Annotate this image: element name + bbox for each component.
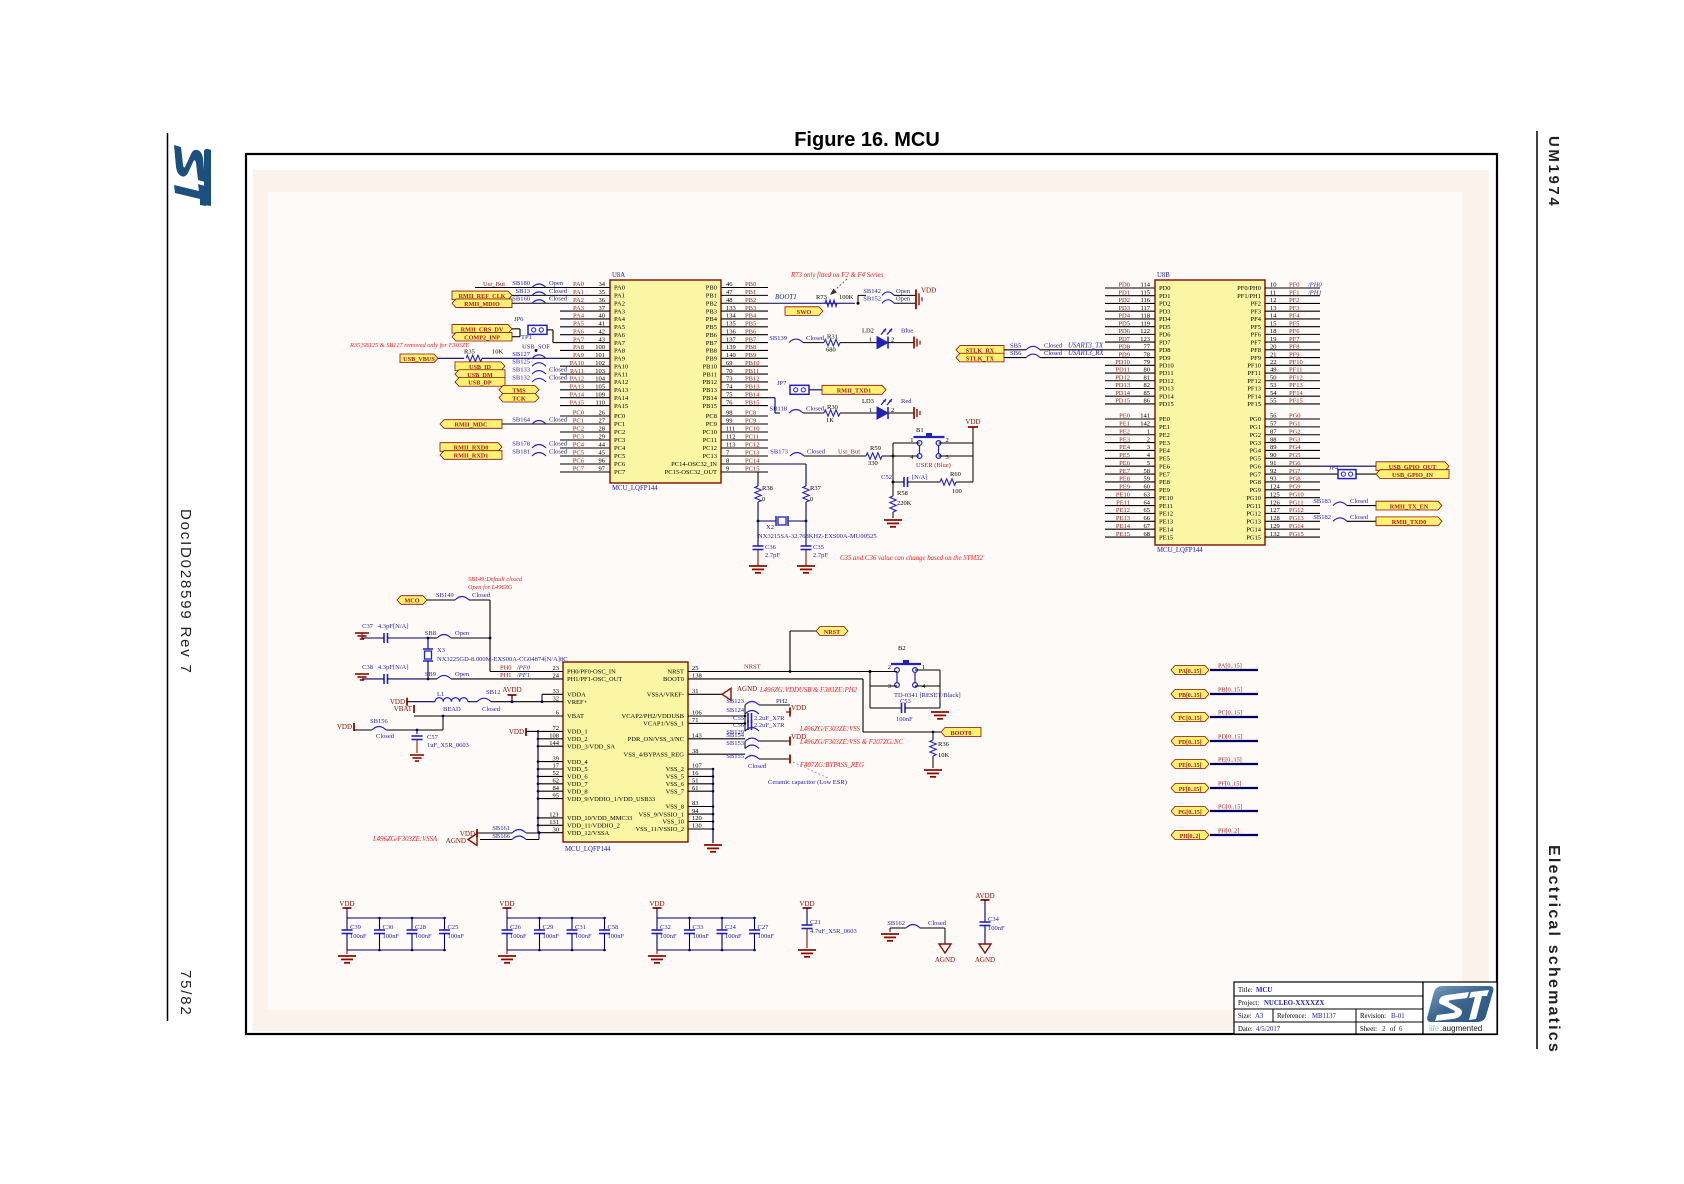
svg-text:C36: C36	[765, 544, 777, 551]
svg-text:Closed: Closed	[549, 288, 568, 295]
svg-text:Closed: Closed	[549, 296, 568, 303]
svg-text:JP6: JP6	[514, 316, 524, 323]
svg-text:/PH0: /PH0	[1307, 282, 1322, 289]
svg-text:VDD_9/VDDIO_1/VDD_USB33: VDD_9/VDDIO_1/VDD_USB33	[567, 796, 655, 803]
svg-text:VDD_5: VDD_5	[567, 766, 588, 773]
svg-text:[N/A]: [N/A]	[912, 474, 928, 481]
svg-text:PD5: PD5	[1159, 324, 1171, 331]
svg-text:100nF: 100nF	[350, 933, 367, 940]
svg-text:VDD: VDD	[337, 723, 352, 731]
svg-text:R60: R60	[950, 471, 961, 478]
svg-text:SB9: SB9	[425, 671, 436, 678]
svg-text:C21: C21	[810, 919, 821, 926]
svg-text:PC13: PC13	[703, 453, 717, 460]
svg-text:USART3_TX: USART3_TX	[1068, 342, 1104, 349]
svg-text:PE12: PE12	[1159, 511, 1173, 518]
svg-text:PD7: PD7	[1159, 339, 1171, 346]
svg-text:PD9: PD9	[1159, 355, 1171, 362]
svg-text:Open: Open	[455, 630, 470, 637]
svg-text:PB11: PB11	[703, 371, 717, 378]
svg-text:PG2: PG2	[1249, 432, 1261, 439]
svg-text:PC[0..15]: PC[0..15]	[1218, 710, 1242, 717]
svg-text:100nF: 100nF	[448, 933, 465, 940]
svg-text:C37: C37	[362, 623, 374, 630]
svg-text:100nF: 100nF	[608, 933, 625, 940]
svg-text:PC4: PC4	[614, 445, 626, 452]
svg-text:PA4: PA4	[614, 316, 626, 323]
svg-text:PF10: PF10	[1247, 363, 1261, 370]
svg-text:Closed: Closed	[482, 706, 501, 713]
svg-text:Ceramic capacitor (Low ESR): Ceramic capacitor (Low ESR)	[768, 779, 847, 786]
svg-text:PC5: PC5	[614, 453, 625, 460]
svg-text:B1: B1	[916, 427, 924, 434]
svg-text:SB133: SB133	[512, 367, 530, 374]
svg-text:U8A: U8A	[612, 272, 625, 279]
svg-text:PA7: PA7	[614, 340, 626, 347]
svg-text:PD12: PD12	[1159, 378, 1174, 385]
svg-text:/PF0: /PF0	[516, 665, 531, 672]
svg-text:RMII_MDIO: RMII_MDIO	[464, 301, 500, 308]
svg-text:SB132: SB132	[512, 374, 530, 381]
svg-text:C58: C58	[608, 924, 619, 931]
svg-text:PH1: PH1	[500, 672, 512, 679]
svg-text:Electrical schematics: Electrical schematics	[1545, 845, 1562, 1054]
svg-text:PH0: PH0	[500, 665, 512, 672]
svg-text:VDDA: VDDA	[567, 692, 586, 699]
svg-text:SB162: SB162	[887, 920, 905, 927]
svg-text:USART3_RX: USART3_RX	[1068, 350, 1104, 357]
svg-text:PG9: PG9	[1249, 487, 1261, 494]
svg-text:Closed: Closed	[1350, 498, 1369, 505]
svg-text:SB12: SB12	[486, 689, 500, 696]
svg-text:100nF: 100nF	[415, 933, 432, 940]
svg-text:PF2: PF2	[1251, 301, 1261, 308]
svg-text:PB0: PB0	[706, 285, 717, 292]
svg-text:SB182: SB182	[1313, 514, 1331, 521]
svg-text:SB5: SB5	[1010, 342, 1021, 349]
svg-text:VSS_5: VSS_5	[666, 774, 684, 781]
svg-text:PA[0..15]: PA[0..15]	[1179, 669, 1202, 675]
svg-text:/PF1: /PF1	[516, 672, 530, 679]
svg-text:B-01: B-01	[1391, 1013, 1405, 1020]
svg-text:PB3: PB3	[706, 308, 717, 315]
svg-text:VCAP2/PH2/VDDUSB: VCAP2/PH2/VDDUSB	[622, 713, 685, 720]
svg-text:PD[0..15]: PD[0..15]	[1178, 740, 1201, 746]
svg-text:PB12: PB12	[703, 379, 717, 386]
svg-text:BOOT1: BOOT1	[775, 293, 797, 301]
svg-text:PF6: PF6	[1251, 332, 1262, 339]
svg-text:Usr_But: Usr_But	[483, 281, 505, 288]
svg-text:USB_GPIO_IN: USB_GPIO_IN	[1392, 472, 1433, 479]
svg-text:100nF: 100nF	[758, 933, 775, 940]
svg-text:SB149: SB149	[436, 592, 454, 599]
svg-text:SB152: SB152	[863, 296, 881, 303]
svg-text:USER (Blue): USER (Blue)	[916, 462, 951, 469]
svg-text:NRST: NRST	[744, 664, 761, 671]
svg-text:C24: C24	[725, 924, 737, 931]
svg-text:6: 6	[1399, 1026, 1403, 1033]
svg-text:VREF+: VREF+	[567, 699, 588, 706]
svg-text:C35 and C36 value can change b: C35 and C36 value can change based on th…	[840, 555, 984, 562]
svg-text:USB_VBUS: USB_VBUS	[403, 356, 435, 363]
svg-text:PG[0..15]: PG[0..15]	[1218, 804, 1242, 811]
svg-text:Figure 16. MCU: Figure 16. MCU	[794, 129, 940, 151]
svg-text:SB127: SB127	[512, 351, 530, 358]
svg-text:VSS_4/BYPASS_REG: VSS_4/BYPASS_REG	[624, 751, 685, 758]
svg-text:SB154: SB154	[726, 732, 744, 739]
svg-text:PG3: PG3	[1249, 440, 1261, 447]
svg-text:PC11: PC11	[703, 437, 717, 444]
svg-text:NX3225GD-8.000M-EXS00A-CG04874: NX3225GD-8.000M-EXS00A-CG04874[N/A]8C	[437, 656, 568, 663]
svg-text:R37: R37	[810, 485, 822, 492]
svg-text:.augmented: .augmented	[1440, 1024, 1482, 1033]
svg-text:PG5: PG5	[1249, 456, 1261, 463]
svg-text:COMP2_INP: COMP2_INP	[464, 334, 500, 341]
svg-text:VBAT: VBAT	[394, 705, 413, 713]
svg-text:PB6: PB6	[706, 332, 718, 339]
svg-text:Closed: Closed	[806, 406, 825, 413]
svg-text:VDD: VDD	[921, 286, 936, 294]
svg-text:PF4: PF4	[1251, 316, 1262, 323]
svg-text:2.7pF: 2.7pF	[765, 552, 780, 559]
svg-text:SB160: SB160	[512, 296, 530, 303]
svg-text:R36: R36	[938, 741, 950, 748]
svg-text:Closed: Closed	[928, 920, 947, 927]
svg-text:PG15: PG15	[1246, 534, 1261, 541]
svg-text:Reference:: Reference:	[1277, 1013, 1307, 1020]
svg-text:MCU_LQFP144: MCU_LQFP144	[1157, 547, 1203, 554]
svg-text:AGND: AGND	[446, 837, 466, 845]
svg-text:PA15: PA15	[614, 403, 628, 410]
svg-text:UM1974: UM1974	[1545, 136, 1562, 208]
svg-text:PC[0..15]: PC[0..15]	[1178, 716, 1201, 722]
svg-text:Closed: Closed	[806, 335, 825, 342]
svg-text:4.3pF[N/A]: 4.3pF[N/A]	[378, 623, 409, 630]
svg-text:SB156: SB156	[370, 718, 388, 725]
svg-text:Closed: Closed	[1044, 350, 1063, 357]
svg-text:PC1: PC1	[614, 421, 625, 428]
svg-text:PA10: PA10	[614, 363, 628, 370]
svg-text:Open: Open	[549, 280, 564, 287]
svg-text:PH1/PF1-OSC_OUT: PH1/PF1-OSC_OUT	[567, 676, 622, 683]
svg-text:PB[0..15]: PB[0..15]	[1179, 693, 1202, 699]
svg-text:PH0/PF0-OSC_IN: PH0/PF0-OSC_IN	[567, 669, 616, 676]
svg-text:MCU_LQFP144: MCU_LQFP144	[565, 846, 611, 853]
svg-text:L496ZG/F303ZE:VSS & F207ZG:NC: L496ZG/F303ZE:VSS & F207ZG:NC	[799, 739, 904, 746]
svg-text:PH[0..2]: PH[0..2]	[1218, 828, 1239, 835]
svg-text:VDD_8: VDD_8	[567, 788, 588, 795]
svg-text:3: 3	[946, 454, 949, 461]
svg-text:Closed: Closed	[549, 367, 568, 374]
svg-text:PF[0..15]: PF[0..15]	[1179, 787, 1202, 793]
svg-text:PC12: PC12	[703, 445, 717, 452]
svg-text:Closed: Closed	[748, 763, 767, 770]
svg-text:PE7: PE7	[1159, 471, 1171, 478]
svg-text:Title:: Title:	[1238, 987, 1253, 994]
svg-text:Closed: Closed	[549, 441, 568, 448]
svg-text:2.2uF_X7R: 2.2uF_X7R	[754, 722, 785, 729]
svg-text:Date:: Date:	[1238, 1026, 1253, 1033]
svg-text:SB142: SB142	[863, 288, 881, 295]
svg-text:R35,SB125 & SB127 removed only: R35,SB125 & SB127 removed only for F303Z…	[349, 342, 469, 349]
svg-text:R73 only fitted on F2 & F4 Ser: R73 only fitted on F2 & F4 Series	[790, 272, 884, 279]
svg-text:PG8: PG8	[1249, 479, 1261, 486]
svg-text:PD0: PD0	[1159, 285, 1171, 292]
svg-text:100nF: 100nF	[543, 933, 560, 940]
svg-text:PE6: PE6	[1159, 463, 1171, 470]
svg-text:100nF: 100nF	[660, 933, 677, 940]
svg-text:R58: R58	[897, 490, 908, 497]
svg-text:AVDD: AVDD	[975, 892, 994, 900]
svg-text:RMII_TXD0: RMII_TXD0	[1392, 519, 1426, 526]
svg-text:Revision:: Revision:	[1360, 1013, 1386, 1020]
svg-text:SB180: SB180	[512, 280, 530, 287]
svg-text:PA8: PA8	[614, 348, 625, 355]
svg-text:PG12: PG12	[1246, 511, 1261, 518]
svg-text:Closed: Closed	[549, 417, 568, 424]
svg-text:R59: R59	[870, 445, 881, 452]
svg-text:AVDD: AVDD	[502, 686, 521, 694]
svg-text:Red: Red	[901, 398, 912, 405]
svg-text:Open: Open	[455, 671, 470, 678]
svg-text:PG[0..15]: PG[0..15]	[1178, 810, 1202, 816]
svg-text:SB183: SB183	[1313, 498, 1331, 505]
svg-text:PH[0..2]: PH[0..2]	[1180, 834, 1201, 840]
svg-text:DocID028599 Rev 7: DocID028599 Rev 7	[177, 509, 194, 675]
svg-text:PC15-OSC32_OUT: PC15-OSC32_OUT	[665, 469, 717, 476]
svg-text:2.2uF_X7R: 2.2uF_X7R	[754, 715, 785, 722]
svg-text:PA11: PA11	[614, 371, 628, 378]
svg-text:C27: C27	[758, 924, 770, 931]
svg-text:RMII_MDC: RMII_MDC	[455, 422, 488, 429]
svg-text:MCO: MCO	[404, 598, 419, 605]
svg-text:VDD_7: VDD_7	[567, 781, 588, 788]
svg-text:VSS_9/VSSIO_1: VSS_9/VSSIO_1	[638, 811, 684, 818]
svg-text:PD4: PD4	[1159, 316, 1171, 323]
svg-text:PB15: PB15	[703, 403, 717, 410]
svg-text:TP1: TP1	[521, 334, 532, 341]
svg-text:STLK_TX: STLK_TX	[966, 355, 995, 362]
svg-text:AGND: AGND	[737, 685, 757, 693]
svg-text:C33: C33	[693, 924, 704, 931]
svg-text:PA12: PA12	[614, 379, 628, 386]
svg-text:SB181: SB181	[512, 449, 530, 456]
svg-text:PE10: PE10	[1159, 495, 1173, 502]
svg-text:Project:: Project:	[1238, 1000, 1259, 1007]
svg-text:PD1: PD1	[1159, 293, 1171, 300]
svg-text:TCK: TCK	[512, 395, 526, 402]
svg-text:PD6: PD6	[1159, 332, 1171, 339]
svg-text:Closed: Closed	[1350, 514, 1369, 521]
svg-text:PG13: PG13	[1246, 519, 1261, 526]
svg-text:PA9: PA9	[614, 356, 625, 363]
svg-text:VDD_4: VDD_4	[567, 759, 588, 766]
svg-text:RMII_TX_EN: RMII_TX_EN	[1390, 503, 1429, 510]
svg-text:PB5: PB5	[706, 324, 717, 331]
svg-text:R73: R73	[816, 294, 827, 301]
svg-text:VDD_1: VDD_1	[567, 729, 588, 736]
svg-text:PE3: PE3	[1159, 440, 1170, 447]
svg-text:PA3: PA3	[614, 308, 625, 315]
svg-text:VSSA/VREF-: VSSA/VREF-	[647, 692, 684, 699]
svg-text:220K: 220K	[897, 500, 912, 507]
svg-text:NUCLEO-XXXXZX: NUCLEO-XXXXZX	[1264, 1000, 1325, 1007]
svg-text:RMII_RXD1: RMII_RXD1	[454, 453, 489, 460]
svg-text:JP7: JP7	[777, 380, 787, 387]
svg-text:VSS_2: VSS_2	[666, 766, 684, 773]
svg-text:PB13: PB13	[703, 387, 717, 394]
svg-text:Open: Open	[896, 288, 911, 295]
svg-text:C29: C29	[543, 924, 554, 931]
svg-text:Open: Open	[896, 296, 911, 303]
svg-text:X3: X3	[437, 647, 445, 654]
svg-text:PD[0..15]: PD[0..15]	[1218, 734, 1242, 741]
svg-text:L1: L1	[437, 691, 444, 698]
svg-text:L496ZG/F303ZE:VSSA: L496ZG/F303ZE:VSSA	[372, 836, 438, 843]
svg-text:PD13: PD13	[1159, 386, 1174, 393]
svg-text:10K: 10K	[492, 348, 504, 355]
svg-text:2.7pF: 2.7pF	[813, 552, 828, 559]
svg-text:VSS_6: VSS_6	[666, 781, 685, 788]
svg-text:PA[0..15]: PA[0..15]	[1218, 663, 1242, 670]
svg-text:VSS_11/VSSIO_2: VSS_11/VSSIO_2	[635, 826, 684, 833]
svg-text:PA6: PA6	[614, 332, 626, 339]
svg-text:PB2: PB2	[706, 300, 717, 307]
svg-text:BEAD: BEAD	[443, 706, 461, 713]
svg-text:VDD_10/VDD_MMC33: VDD_10/VDD_MMC33	[567, 815, 632, 822]
svg-text:VDD: VDD	[791, 704, 806, 712]
svg-text:Closed: Closed	[549, 374, 568, 381]
svg-text:C28: C28	[415, 924, 426, 931]
svg-text:PE[0..15]: PE[0..15]	[1218, 757, 1242, 764]
svg-text:C30: C30	[383, 924, 394, 931]
svg-text:PB7: PB7	[706, 340, 718, 347]
svg-text:100nF: 100nF	[693, 933, 710, 940]
svg-text:100nF: 100nF	[896, 716, 913, 723]
svg-text:VDD_12/VSSA: VDD_12/VSSA	[567, 830, 610, 837]
svg-text:4/5/2017: 4/5/2017	[1256, 1026, 1281, 1033]
svg-text:life: life	[1429, 1024, 1440, 1033]
svg-text:PG1: PG1	[1249, 424, 1261, 431]
svg-text:VCAP1/VSS_1: VCAP1/VSS_1	[643, 721, 684, 728]
svg-text:VDD_2: VDD_2	[567, 736, 588, 743]
svg-text:PG4: PG4	[1249, 448, 1261, 455]
svg-text:PF0/PH0: PF0/PH0	[1237, 285, 1261, 292]
svg-text:C55: C55	[733, 715, 744, 722]
svg-text:PE14: PE14	[1159, 526, 1174, 533]
svg-text:PC14-OSC32_IN: PC14-OSC32_IN	[671, 461, 717, 468]
svg-text:PG11: PG11	[1246, 503, 1261, 510]
svg-text:VDD: VDD	[339, 900, 354, 908]
svg-text:100nF: 100nF	[988, 925, 1005, 932]
svg-text:SB125: SB125	[512, 359, 530, 366]
svg-text:C26: C26	[510, 924, 522, 931]
svg-text:PD15: PD15	[1159, 401, 1174, 408]
svg-text:1: 1	[869, 337, 872, 344]
svg-text:MCU: MCU	[1256, 987, 1272, 994]
svg-text:4.7uF_X5R_0603: 4.7uF_X5R_0603	[810, 928, 857, 935]
svg-text:2: 2	[888, 664, 891, 671]
svg-text:100K: 100K	[839, 294, 854, 301]
svg-text:RMII_TXD1: RMII_TXD1	[837, 388, 871, 395]
svg-text:75/82: 75/82	[177, 970, 194, 1017]
svg-text:VDD: VDD	[509, 728, 524, 736]
svg-text:0: 0	[762, 496, 765, 503]
svg-text:C52: C52	[881, 474, 892, 481]
svg-text:PE5: PE5	[1159, 456, 1170, 463]
svg-text:PF15: PF15	[1247, 401, 1261, 408]
svg-text:C39: C39	[350, 924, 361, 931]
svg-text:SB161: SB161	[492, 825, 510, 832]
svg-text:1uF_X5R_0603: 1uF_X5R_0603	[427, 742, 469, 749]
svg-text:PC2: PC2	[614, 429, 625, 436]
svg-text:PB[0..15]: PB[0..15]	[1218, 687, 1242, 694]
svg-text:C38: C38	[362, 664, 373, 671]
svg-text:LD3: LD3	[862, 398, 874, 405]
svg-text:C31: C31	[575, 924, 586, 931]
svg-text:SB118: SB118	[770, 406, 787, 413]
svg-text:PD3: PD3	[1159, 308, 1171, 315]
svg-text:MCU_LQFP144: MCU_LQFP144	[612, 485, 658, 492]
svg-text:BOOT0: BOOT0	[663, 676, 684, 683]
svg-text:PG14: PG14	[1246, 526, 1262, 533]
svg-text:L496ZG:VDDUSB & F303ZE:PH2: L496ZG:VDDUSB & F303ZE:PH2	[759, 687, 858, 694]
svg-text:VSS_10: VSS_10	[662, 819, 684, 826]
svg-text:SB178: SB178	[512, 441, 530, 448]
svg-text:MB1137: MB1137	[1312, 1013, 1337, 1020]
svg-text:Open for L496ZG: Open for L496ZG	[468, 584, 513, 591]
svg-text:Closed: Closed	[1044, 342, 1063, 349]
svg-text:R38: R38	[762, 485, 773, 492]
svg-text:Closed: Closed	[807, 449, 826, 456]
svg-text:Blue: Blue	[901, 328, 913, 335]
svg-text:SB166: SB166	[492, 833, 510, 840]
svg-text:USB_DP: USB_DP	[468, 380, 492, 387]
svg-text:PD14: PD14	[1159, 393, 1175, 400]
svg-text:680: 680	[826, 347, 836, 354]
svg-text:SWO: SWO	[797, 309, 812, 316]
svg-text:A3: A3	[1255, 1013, 1264, 1020]
svg-text:PB9: PB9	[706, 356, 717, 363]
svg-text:LD2: LD2	[862, 328, 874, 335]
svg-text:SB124: SB124	[726, 707, 744, 714]
svg-text:PF3: PF3	[1251, 308, 1261, 315]
svg-text:PA0: PA0	[614, 285, 625, 292]
svg-text:of: of	[1390, 1026, 1396, 1033]
svg-text:PF7: PF7	[1251, 339, 1262, 346]
svg-text:SB149:Default closed: SB149:Default closed	[468, 576, 523, 583]
svg-text:VSS_8: VSS_8	[666, 804, 684, 811]
svg-text:F407ZG:BYPASS_REG: F407ZG:BYPASS_REG	[799, 762, 864, 769]
svg-text:PC9: PC9	[706, 421, 717, 428]
svg-text:PC8: PC8	[706, 413, 717, 420]
svg-text:PG6: PG6	[1249, 463, 1261, 470]
svg-text:SB8: SB8	[425, 630, 436, 637]
svg-text:PE8: PE8	[1159, 479, 1170, 486]
svg-text:PA5: PA5	[614, 324, 625, 331]
svg-text:VDD_3/VDD_SA: VDD_3/VDD_SA	[567, 743, 615, 750]
svg-text:PE4: PE4	[1159, 448, 1171, 455]
svg-text:PD8: PD8	[1159, 347, 1171, 354]
svg-text:SB153: SB153	[726, 740, 744, 747]
svg-text:NX3215SA-32.768KHZ-EXS00A-MU00: NX3215SA-32.768KHZ-EXS00A-MU00525	[758, 533, 877, 540]
svg-text:4.3pF[N/A]: 4.3pF[N/A]	[378, 664, 409, 671]
svg-text:Usr_But: Usr_But	[838, 449, 860, 456]
svg-text:PF[0..15]: PF[0..15]	[1218, 781, 1241, 788]
svg-text:1K: 1K	[826, 417, 834, 424]
svg-text:PF12: PF12	[1247, 378, 1261, 385]
svg-text:2: 2	[1382, 1026, 1386, 1033]
